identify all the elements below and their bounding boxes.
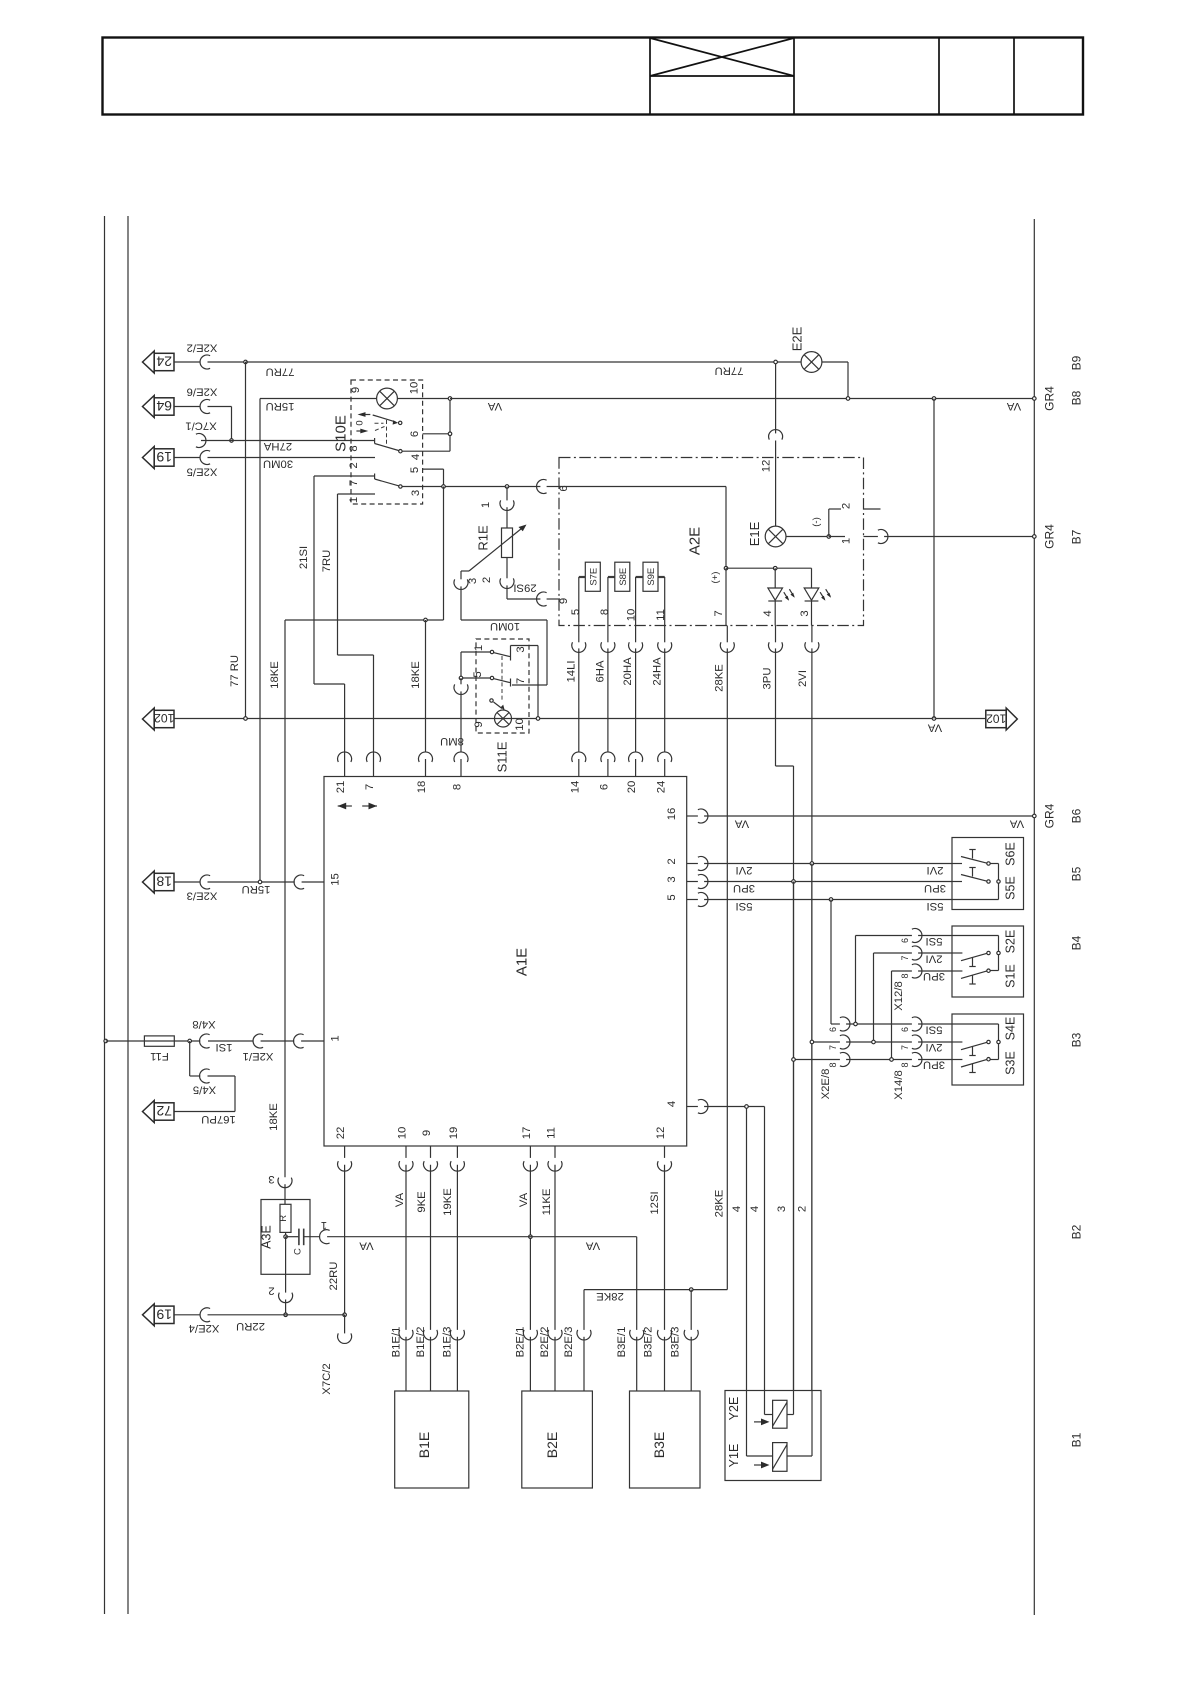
- wire A3E pin3 entry: [284, 1184, 286, 1204]
- svg-text:A1E: A1E: [513, 948, 530, 976]
- svg-text:B3E: B3E: [651, 1432, 667, 1458]
- svg-text:X2E/5: X2E/5: [187, 466, 218, 478]
- svg-text:28KE: 28KE: [714, 1189, 726, 1217]
- connector A1E pin3: [698, 875, 708, 889]
- node 102 junction 77RU: [244, 717, 248, 721]
- svg-text:B1E/3: B1E/3: [442, 1327, 454, 1358]
- wire S10E pin1 entry: [338, 493, 376, 495]
- resistor R of A3E: [280, 1204, 291, 1232]
- S5E to 5SI link: [998, 884, 1000, 900]
- svg-text:A3E: A3E: [260, 1225, 274, 1249]
- wire 28KE: [726, 626, 728, 1290]
- svg-text:1: 1: [473, 645, 485, 651]
- svg-text:VA: VA: [734, 817, 749, 829]
- connector A1E pin 9 bottom: [424, 1161, 438, 1171]
- svg-text:S2E: S2E: [1004, 930, 1018, 954]
- svg-text:R: R: [278, 1215, 289, 1222]
- wire R1E pin1: [506, 487, 508, 529]
- svg-text:6: 6: [900, 938, 910, 943]
- S10E selector pivot: [399, 421, 402, 424]
- connector X2E/8 pin6: [840, 1017, 850, 1031]
- svg-text:VA: VA: [585, 1239, 600, 1251]
- svg-text:5: 5: [666, 894, 678, 900]
- svg-text:8: 8: [452, 784, 464, 790]
- wire X2E/2 to junction: [174, 361, 246, 363]
- diode LED1: [768, 588, 783, 600]
- svg-text:S6E: S6E: [1004, 842, 1018, 866]
- lamp S11E: [495, 710, 512, 727]
- wire 3PU to X12/8: [892, 970, 912, 972]
- wire 10MU: [461, 620, 547, 685]
- connector X2E/2: [200, 355, 210, 369]
- svg-text:(-): (-): [811, 517, 822, 527]
- connector R1E pin3: [454, 579, 468, 589]
- svg-text:1: 1: [480, 502, 492, 508]
- svg-text:19KE: 19KE: [442, 1188, 454, 1216]
- svg-text:X12/8: X12/8: [893, 981, 905, 1011]
- S11E contact 1: [490, 650, 493, 653]
- connector A2E pin9: [537, 592, 547, 606]
- svg-text:102: 102: [154, 711, 175, 725]
- connector X2E/6: [200, 400, 210, 414]
- svg-text:X4/8: X4/8: [192, 1018, 215, 1030]
- wire S10E pin7 entry: [314, 475, 375, 477]
- svg-text:10: 10: [409, 382, 421, 395]
- svg-text:S1E: S1E: [1004, 964, 1018, 988]
- valve box Y1E Y2E: [725, 1391, 821, 1481]
- wire VA pin10: [405, 1146, 407, 1391]
- svg-text:77RU: 77RU: [266, 366, 295, 378]
- node supply start: [104, 1039, 108, 1043]
- wire 8MU: [460, 678, 462, 777]
- connector R1E pin2: [500, 578, 514, 588]
- wire 28KE bottom: [584, 1290, 727, 1391]
- svg-text:4: 4: [731, 1206, 743, 1212]
- connector 2VI: [805, 642, 819, 652]
- svg-text:X14/8: X14/8: [893, 1070, 905, 1100]
- node E1E minus junction: [827, 535, 831, 539]
- wire 18KE to A1E pin18: [425, 620, 427, 777]
- svg-text:4: 4: [666, 1101, 678, 1107]
- connector B2E/2: [548, 1330, 562, 1340]
- sensor S9E: [643, 562, 658, 591]
- S2E feed link: [998, 936, 1000, 952]
- svg-text:X2E/8: X2E/8: [820, 1069, 832, 1100]
- svg-text:11KE: 11KE: [541, 1188, 553, 1215]
- control unit A1E box: [324, 777, 687, 1147]
- wire S11E pin3 to 102: [511, 646, 539, 719]
- svg-text:19: 19: [156, 1306, 172, 1322]
- wire R1E pin3: [460, 571, 462, 620]
- svg-text:GR4: GR4: [1042, 803, 1056, 828]
- svg-text:B6: B6: [1069, 808, 1083, 823]
- svg-text:E2E: E2E: [790, 326, 805, 351]
- wire F11 to X4/8: [174, 1040, 200, 1042]
- connector A1E pin 14: [572, 752, 586, 762]
- wire 15RU: [260, 399, 450, 883]
- svg-text:18KE: 18KE: [268, 1103, 280, 1131]
- svg-text:F11: F11: [150, 1050, 169, 1062]
- switch box S1E S2E: [952, 926, 1024, 997]
- svg-text:24: 24: [156, 354, 172, 370]
- svg-text:2VI: 2VI: [797, 670, 809, 687]
- connector A1E pin16: [698, 809, 708, 823]
- wire X2E/4: [174, 1314, 345, 1316]
- svg-text:11: 11: [655, 609, 667, 621]
- diode LED2: [804, 588, 819, 600]
- svg-text:3: 3: [467, 578, 479, 584]
- wire 9KE: [430, 1146, 432, 1391]
- wire S10E pin3 line: [402, 486, 560, 488]
- svg-text:X4/5: X4/5: [193, 1084, 216, 1096]
- svg-text:S11E: S11E: [495, 741, 510, 772]
- wire 102 bus: [174, 718, 986, 720]
- svg-text:2: 2: [797, 1206, 809, 1212]
- wire X2E/8 line C: [794, 1059, 912, 1061]
- connector A1E pin 21: [338, 752, 352, 762]
- node 5SI corner: [829, 898, 833, 902]
- capacitor C of A3E: [286, 1236, 299, 1238]
- wire 77RU horizontal to E2E: [246, 361, 802, 363]
- svg-text:X2E/3: X2E/3: [187, 890, 218, 902]
- resistor R1E body: [502, 528, 513, 558]
- Y1E actuate arrow: [754, 1464, 764, 1466]
- wire A2E LED rail: [726, 568, 812, 625]
- svg-text:4: 4: [762, 610, 774, 616]
- svg-text:GR4: GR4: [1042, 386, 1056, 411]
- svg-text:19: 19: [448, 1127, 460, 1140]
- svg-text:5SI: 5SI: [736, 900, 753, 912]
- svg-text:10MU: 10MU: [490, 620, 520, 632]
- svg-text:B7: B7: [1069, 529, 1083, 544]
- svg-text:16: 16: [666, 808, 678, 821]
- node LED1 junction: [773, 566, 777, 570]
- connector A1E pin 11 bottom: [548, 1161, 562, 1171]
- svg-text:8MU: 8MU: [440, 735, 464, 747]
- svg-text:3PU: 3PU: [923, 1058, 945, 1070]
- wire 6HA: [607, 626, 609, 777]
- svg-text:B3E/1: B3E/1: [616, 1327, 628, 1358]
- svg-text:7: 7: [364, 784, 376, 790]
- connector A1E pin 7: [367, 752, 381, 762]
- svg-text:14: 14: [569, 781, 581, 794]
- svg-text:9: 9: [350, 387, 362, 393]
- sensor B3E box: [630, 1391, 701, 1488]
- connector X14/8 pin7: [912, 1035, 922, 1049]
- svg-text:9: 9: [421, 1130, 433, 1136]
- node B3E/3 junction: [689, 1288, 693, 1292]
- svg-text:X2E/4: X2E/4: [189, 1322, 220, 1334]
- svg-text:B1E/2: B1E/2: [415, 1327, 427, 1358]
- connector X7C/2: [338, 1333, 352, 1343]
- svg-text:3PU: 3PU: [733, 882, 755, 894]
- border line left outer: [104, 216, 106, 1614]
- svg-text:6: 6: [599, 784, 611, 790]
- connector 6HA: [601, 642, 615, 652]
- svg-text:3: 3: [268, 1173, 274, 1185]
- flag arrow 19 low: [143, 1304, 155, 1326]
- svg-text:S5E: S5E: [1004, 876, 1018, 900]
- svg-text:28KE: 28KE: [596, 1290, 624, 1302]
- svg-text:4: 4: [749, 1206, 761, 1212]
- svg-text:GR4: GR4: [1042, 524, 1056, 549]
- svg-text:5: 5: [409, 467, 421, 473]
- connector R1E pin1: [500, 500, 514, 510]
- svg-text:30MU: 30MU: [263, 458, 293, 470]
- S11E lamp linkage: [501, 656, 503, 700]
- wire 5SI drop: [831, 900, 840, 1025]
- svg-text:19: 19: [156, 449, 172, 465]
- svg-text:22RU: 22RU: [328, 1262, 340, 1291]
- svg-text:18KE: 18KE: [410, 661, 422, 689]
- svg-text:2VI: 2VI: [927, 864, 944, 876]
- svg-text:22RU: 22RU: [236, 1320, 265, 1332]
- wire X2E/8 line A: [846, 1023, 912, 1025]
- svg-text:E1E: E1E: [747, 521, 762, 546]
- node GR4 B7 end: [1033, 535, 1037, 539]
- wire 14LI: [578, 626, 580, 777]
- Y2E actuate arrow: [754, 1421, 764, 1423]
- svg-text:6: 6: [900, 1027, 910, 1032]
- wire A2E pin6 internal: [559, 487, 726, 569]
- node VA junction pin17: [529, 1235, 533, 1239]
- wire 3PU: [776, 626, 794, 1391]
- sensor B1E box: [395, 1391, 469, 1488]
- connector B3E/2: [658, 1330, 672, 1340]
- svg-text:2: 2: [348, 462, 360, 468]
- S10E contact 8-4: [374, 438, 376, 444]
- svg-text:27HA: 27HA: [263, 440, 292, 452]
- wire B3E/3 drop: [690, 1290, 692, 1391]
- wire 1SI: [208, 1040, 253, 1042]
- svg-text:20: 20: [626, 781, 638, 794]
- switch S4E: [952, 1041, 962, 1043]
- connector A1E pin 22 bottom: [338, 1161, 352, 1171]
- switch S5E: [952, 881, 962, 883]
- svg-text:2: 2: [666, 858, 678, 864]
- connector A3E pin2: [279, 1293, 293, 1303]
- wire E1E pin12: [775, 362, 777, 526]
- svg-text:3: 3: [776, 1206, 788, 1212]
- wire 2VI drop: [811, 864, 813, 1391]
- connector B2E/3: [577, 1330, 591, 1340]
- connector A1E pin 19 bottom: [450, 1161, 464, 1171]
- wire VA B6: [687, 815, 1034, 817]
- wire 11KE: [554, 1146, 556, 1391]
- svg-text:VA: VA: [927, 721, 942, 733]
- S10E selector arrow right: [360, 429, 368, 434]
- connector A1E pin 6: [601, 752, 615, 762]
- svg-text:7: 7: [900, 1045, 910, 1050]
- connector X12/8 pin8: [912, 964, 922, 978]
- flag arrow 64: [143, 396, 155, 418]
- node VA junction E2E drop: [846, 397, 850, 401]
- sensor S8E: [615, 562, 630, 591]
- switch S2E: [952, 952, 962, 954]
- wire S7E lead: [579, 576, 586, 578]
- svg-text:VA: VA: [518, 1192, 530, 1207]
- svg-text:B9: B9: [1069, 355, 1083, 370]
- lamp E1E: [765, 526, 786, 547]
- node 3PU riser foot: [890, 1058, 894, 1062]
- connector X2E/3: [200, 875, 210, 889]
- svg-text:6HA: 6HA: [595, 660, 607, 682]
- wire X14/8 into S4E box: [918, 1024, 998, 1060]
- svg-text:B2E: B2E: [544, 1432, 560, 1458]
- switch S6E: [952, 863, 962, 865]
- connector X12/8 pin6: [912, 929, 922, 943]
- svg-text:21SI: 21SI: [298, 546, 310, 569]
- node junction 18KE split: [424, 618, 428, 622]
- svg-text:1: 1: [348, 497, 360, 503]
- svg-text:64: 64: [156, 398, 172, 414]
- svg-text:3: 3: [410, 490, 422, 496]
- wire supply to F11: [106, 1040, 145, 1042]
- svg-text:6: 6: [828, 1027, 838, 1032]
- svg-text:VA: VA: [394, 1192, 406, 1207]
- connector 8MU: [454, 684, 468, 694]
- wire S10E pin6 stub: [423, 433, 450, 435]
- wire 2VI right: [687, 863, 952, 865]
- node pin6 junction: [448, 432, 452, 436]
- wire R1E pin2: [507, 558, 560, 600]
- flag arrow 24: [143, 351, 155, 373]
- svg-text:VA: VA: [359, 1239, 374, 1251]
- wire E2E to VA corner: [822, 362, 848, 399]
- wire S9E lead left: [636, 576, 643, 578]
- svg-text:9: 9: [473, 721, 485, 727]
- svg-text:28KE: 28KE: [714, 664, 726, 692]
- S4E feed link: [998, 1024, 1000, 1040]
- S6E to S5E link: [991, 863, 999, 865]
- svg-text:VA: VA: [1006, 400, 1021, 412]
- svg-text:8: 8: [900, 973, 910, 978]
- svg-text:10: 10: [626, 609, 638, 622]
- connector A1E pin 10 bottom: [399, 1161, 413, 1171]
- wire VA pin17: [529, 1146, 531, 1391]
- svg-text:S10E: S10E: [332, 415, 349, 452]
- wire 2VI riser: [873, 953, 875, 1042]
- connector A1E pin 17 bottom: [523, 1161, 537, 1171]
- wire S8E lead: [608, 576, 615, 578]
- svg-text:8: 8: [900, 1062, 910, 1067]
- connector 20HA: [629, 642, 643, 652]
- connector X4/8: [200, 1034, 210, 1048]
- node X2E/4 end: [343, 1313, 347, 1317]
- node A3E RC junction: [284, 1235, 288, 1239]
- svg-text:5: 5: [472, 671, 484, 677]
- node junction 443 on pin3 line: [442, 485, 446, 489]
- wire X12/8 into S2E box: [918, 936, 998, 972]
- svg-text:10: 10: [514, 718, 526, 731]
- svg-text:1: 1: [321, 1219, 327, 1231]
- svg-text:72: 72: [156, 1103, 172, 1119]
- svg-text:3: 3: [515, 646, 527, 652]
- wire S10E pin5 link: [423, 469, 444, 486]
- wire A2E pin2 stub: [829, 509, 881, 537]
- connector A1E pin5: [698, 893, 708, 907]
- svg-text:5SI: 5SI: [926, 935, 943, 947]
- svg-text:21: 21: [335, 781, 347, 794]
- R1E wiper arrow: [461, 570, 469, 572]
- wire 5SI riser: [855, 936, 857, 1025]
- svg-text:8: 8: [828, 1062, 838, 1067]
- svg-text:S8E: S8E: [618, 568, 629, 586]
- svg-text:3PU: 3PU: [762, 668, 774, 690]
- svg-text:B2E/3: B2E/3: [563, 1327, 575, 1358]
- svg-text:VA: VA: [1009, 817, 1024, 829]
- border line right: [1033, 219, 1035, 1615]
- svg-text:12: 12: [761, 460, 773, 473]
- svg-text:VA: VA: [487, 400, 502, 412]
- solenoid Y2E: [773, 1400, 787, 1428]
- wire 2VI: [811, 626, 813, 1391]
- node 3PU tap: [792, 1058, 796, 1062]
- svg-text:B2E/1: B2E/1: [515, 1327, 527, 1358]
- node junction R1E pin1: [505, 485, 509, 489]
- node 77RU junction: [244, 360, 248, 364]
- wire 12SI: [664, 1146, 666, 1391]
- S4E to S3E link: [998, 1044, 1000, 1060]
- svg-text:15: 15: [330, 873, 342, 886]
- wire 7RU: [338, 494, 374, 777]
- node 2VI drop: [810, 862, 814, 866]
- svg-text:Y1E: Y1E: [727, 1444, 741, 1468]
- svg-text:29SI: 29SI: [513, 581, 536, 593]
- connector X14/8 pin6: [912, 1017, 922, 1031]
- svg-text:9KE: 9KE: [416, 1191, 428, 1213]
- svg-text:8: 8: [599, 609, 611, 615]
- wire VA distribution: [327, 1237, 637, 1391]
- wire 3PU riser: [891, 971, 893, 1060]
- svg-text:6: 6: [409, 431, 421, 437]
- svg-text:B2E/2: B2E/2: [539, 1327, 551, 1358]
- node 102 junction VA drop: [932, 717, 936, 721]
- signal arrow at pin 21: [338, 805, 352, 807]
- connector B3E/1: [630, 1330, 644, 1340]
- svg-text:18KE: 18KE: [269, 661, 281, 689]
- wire E1E minus: [786, 536, 829, 538]
- svg-text:10: 10: [397, 1127, 409, 1140]
- connector X2E/8 pin8: [840, 1053, 850, 1067]
- svg-text:77RU: 77RU: [715, 365, 744, 377]
- svg-text:1SI: 1SI: [216, 1041, 233, 1053]
- svg-text:2: 2: [481, 577, 493, 583]
- wire VA down drop: [933, 399, 935, 719]
- svg-text:11: 11: [546, 1127, 558, 1139]
- connector X14/8 pin8: [912, 1053, 922, 1067]
- wire 20HA: [635, 626, 637, 777]
- wire 3PU right: [687, 881, 952, 883]
- connector X4/5: [200, 1069, 210, 1083]
- connector B1E/1: [399, 1330, 413, 1340]
- title block divider 4: [1013, 38, 1015, 115]
- svg-text:A2E: A2E: [686, 527, 703, 555]
- wire 19KE: [456, 1146, 458, 1391]
- svg-text:15RU: 15RU: [242, 883, 271, 895]
- svg-text:S3E: S3E: [1004, 1051, 1018, 1075]
- svg-text:2: 2: [268, 1284, 274, 1296]
- svg-text:12SI: 12SI: [649, 1191, 661, 1214]
- connector B1E/3: [450, 1330, 464, 1340]
- flag arrow 72: [143, 1101, 155, 1123]
- svg-text:7: 7: [515, 678, 527, 684]
- connector 28KE: [720, 642, 734, 652]
- svg-text:167PU: 167PU: [201, 1113, 236, 1125]
- svg-text:1: 1: [841, 538, 853, 544]
- wire A2E pin1 stub: [829, 536, 878, 538]
- svg-text:B1: B1: [1069, 1432, 1083, 1447]
